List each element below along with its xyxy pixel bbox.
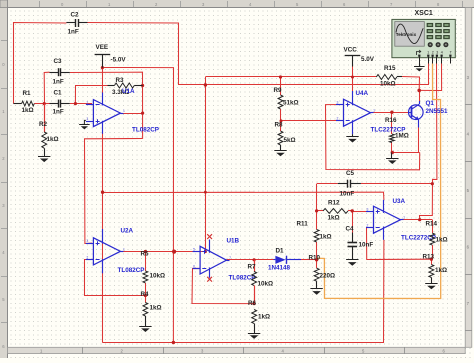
ground below scope G pin [414,64,425,72]
svg-text:1kΩ: 1kΩ [320,234,332,241]
wire: R3 left lead to inverting input column [75,86,107,104]
ground below R2 [38,156,50,158]
svg-text:1: 1 [373,109,375,113]
left ruler strip [0,0,8,358]
resistor R8 [275,122,296,151]
svg-text:VEE: VEE [96,44,109,51]
svg-text:1kΩ: 1kΩ [150,305,162,312]
wire: U3A - input feedback to R13/R14 node [367,228,432,260]
wire: C3 right along y=72 down to output node column [70,72,143,139]
wire: U4A output to Q1 base [371,112,410,114]
svg-text:R9: R9 [274,87,283,94]
capacitor C5 [338,170,361,198]
diode D1 1N4148 [268,248,301,272]
wire: R14 column [432,220,434,233]
svg-text:C4: C4 [346,226,355,233]
op-amp U2A [86,228,145,275]
svg-text:1MΩ: 1MΩ [395,133,409,140]
svg-text:R14: R14 [426,221,438,228]
op-amp U4A [336,90,406,134]
wire: Q1 collector up [419,90,421,101]
ground below R8 [274,150,286,152]
svg-text:2: 2 [337,117,339,121]
svg-text:2N5551: 2N5551 [426,108,449,115]
svg-text:XSC1: XSC1 [415,10,433,17]
resistor R11 [297,221,332,243]
capacitor C3 [50,58,70,86]
wire: C5 left lead to R12 node column [317,183,338,185]
resistor R3 [108,77,143,96]
wire: U1B output to D1 anode [227,259,274,261]
svg-text:U1B: U1B [227,238,240,245]
capacitor C4 [346,226,374,260]
wire: VCC stem to U4A top pin [352,67,354,92]
svg-text:4: 4 [441,51,443,55]
svg-text:1nF: 1nF [68,29,79,36]
svg-text:2: 2 [432,51,434,55]
svg-text:10kΩ: 10kΩ [150,273,166,280]
wire: C1 right to U1A - input [70,103,92,105]
ground at U1A + input [79,120,90,129]
ground below R13 [425,283,437,285]
svg-text:R8: R8 [275,122,284,129]
svg-text:1N4148: 1N4148 [268,265,291,272]
svg-text:1: 1 [403,216,405,220]
svg-text:10kΩ: 10kΩ [258,281,274,288]
resistor R7 [248,260,274,304]
resistor R2 [39,104,59,157]
svg-text:1kΩ: 1kΩ [328,215,340,222]
wire: R8/R9 node to U4A - input [281,120,344,122]
svg-text:R16: R16 [385,117,397,124]
ground below U4A [346,134,358,142]
wire: output node to U2A + input [85,139,143,244]
sheet right border strip [465,8,472,348]
wire: emitter/ground node line [392,152,419,154]
svg-text:1: 1 [123,247,125,251]
svg-text:R6: R6 [248,300,257,307]
resistor R10 [309,255,336,289]
wire: VEE down to U1A top power pin [102,68,104,93]
svg-text:TL082CP: TL082CP [118,267,145,274]
VEE power symbol [95,44,127,68]
svg-text:10nF: 10nF [359,241,374,248]
svg-text:3: 3 [367,207,369,211]
VCC power symbol [344,47,375,67]
resistor R14 [426,221,448,246]
junction dots [101,66,104,69]
svg-text:10kΩ: 10kΩ [380,80,396,87]
resistor R6 [248,300,270,333]
wire: U2A output to U1B + input [120,251,205,253]
resistor R1 [14,90,35,114]
wire: scope ch4 to Q1 collector [419,64,441,91]
capacitor C2 [66,12,87,36]
sheet bottom border strip [8,347,466,353]
wire: feedback column x=205 [205,77,207,252]
svg-text:C5: C5 [346,170,355,177]
svg-text:1: 1 [427,51,429,55]
svg-text:R3: R3 [116,77,125,84]
svg-text:3: 3 [436,51,438,55]
wire: R5 column stubs [145,252,147,271]
op-amp U3A [366,198,436,242]
wire: R12 node to U3A + input [352,211,367,213]
wire: R9 to R8 [280,109,282,131]
wire: R9 top stub [280,77,282,95]
svg-text:51kΩ: 51kΩ [283,100,299,107]
svg-text:2: 2 [86,255,88,259]
svg-text:6: 6 [193,264,195,268]
resistor R15 [376,65,402,87]
svg-text:C3: C3 [54,58,63,65]
wire: U4A + input to ground/emitter node [326,105,420,170]
wire: R15 right to Q1 collector [402,77,420,91]
svg-text:7: 7 [229,256,231,260]
svg-text:1: 1 [123,109,125,113]
wire: comparator rail y=77 with R15 [205,76,376,78]
resistor R4 [141,291,162,326]
wire: D1 cathode to R10 node [301,259,317,261]
ground below R4 [139,326,151,328]
oscilloscope XSC1 [392,10,455,64]
svg-text:1kΩ: 1kΩ [258,314,270,321]
wire: U1A output to feedback node [120,113,142,115]
resistor R5 [141,251,166,283]
wire: Q1 emitter down [418,128,420,153]
svg-text:5kΩ: 5kΩ [284,137,296,144]
svg-text:3: 3 [86,239,88,243]
wire: input node left loop to C2 left [14,23,67,104]
svg-text:R4: R4 [141,291,150,298]
svg-text:-5.0V: -5.0V [111,57,127,64]
wire: U2A - input feedback loop [85,260,146,296]
svg-text:3: 3 [337,100,339,104]
wire: R11/R10 column [316,184,318,230]
wire: bottom power rail to U3A bottom pin [102,240,384,343]
svg-text:U4A: U4A [356,90,369,97]
ground below R16 [386,158,398,160]
wire: power branch to U3A top pin [103,192,384,200]
svg-text:R13: R13 [423,254,435,261]
svg-text:U3A: U3A [393,198,406,205]
wire: scope ch3 red down to sine output [420,64,437,220]
wire: U1B - input feedback loop [192,269,254,304]
svg-text:U1A: U1A [122,88,135,95]
svg-text:5: 5 [193,248,195,252]
wire: VEE rail to x=173 column [102,68,173,343]
svg-text:10nF: 10nF [340,191,355,198]
top ruler strip [0,0,474,8]
capacitor C1 [50,90,70,116]
ground below R10 [310,288,322,290]
svg-text:5.0V: 5.0V [361,56,375,63]
wire: U3A output [401,219,433,221]
svg-text:1kΩ: 1kΩ [22,107,34,114]
wire: ch1 pin stub down [428,64,430,86]
wire: R1 right lead to C1 [34,103,49,105]
wire: R12 leads [317,210,323,212]
wire: C4 stub [352,211,354,233]
svg-text:TL082CP: TL082CP [132,127,159,134]
svg-text:U2A: U2A [121,228,134,235]
svg-text:R11: R11 [297,221,309,228]
wire: R16 stubs [391,112,393,134]
svg-text:R12: R12 [328,200,340,207]
ground below C4 [346,259,358,261]
svg-text:2: 2 [86,101,88,105]
wire: scope ch2 orange to D1/R10 node [317,64,441,299]
svg-text:Tektronix: Tektronix [396,32,417,37]
svg-text:R10: R10 [309,255,321,262]
svg-text:1kΩ: 1kΩ [436,237,448,244]
svg-text:R15: R15 [384,65,396,72]
red X marks on U1B unconnected power pins [207,234,212,239]
svg-text:220Ω: 220Ω [320,273,336,280]
svg-text:D1: D1 [276,248,285,255]
svg-text:3: 3 [86,117,88,121]
svg-text:C1: C1 [54,90,63,97]
wire: scope ch1 line y=85 [179,84,429,86]
ground below R6 [248,333,260,335]
transistor Q1 2N5551 [409,100,449,128]
svg-text:TL082CP: TL082CP [229,275,256,282]
svg-text:R7: R7 [248,264,257,271]
svg-text:1kΩ: 1kΩ [47,136,59,143]
svg-text:1kΩ: 1kΩ [435,267,447,274]
svg-text:VCC: VCC [344,47,358,54]
svg-text:1nF: 1nF [53,79,64,86]
svg-text:1nF: 1nF [53,109,64,116]
svg-text:R2: R2 [39,121,48,128]
wire: C5 right to ch2 column [361,183,432,185]
op-amp U1A [86,88,159,134]
resistor R13 [423,254,448,284]
svg-text:R5: R5 [141,251,150,258]
wire: R13 stub [431,259,433,264]
svg-text:C2: C2 [71,12,80,19]
wire: C2 right to feedback column [88,23,179,86]
wire: power column U1A to U2A and bottom rail [102,134,104,343]
wire: node A up to C3 left [44,72,49,103]
svg-text:R1: R1 [23,90,32,97]
resistor R12 [323,200,348,222]
svg-text:Q1: Q1 [426,100,435,107]
resistor R9 [274,87,299,109]
op-amp U1B [193,238,256,282]
resistor R16 [385,117,409,158]
svg-text:2: 2 [367,224,369,228]
